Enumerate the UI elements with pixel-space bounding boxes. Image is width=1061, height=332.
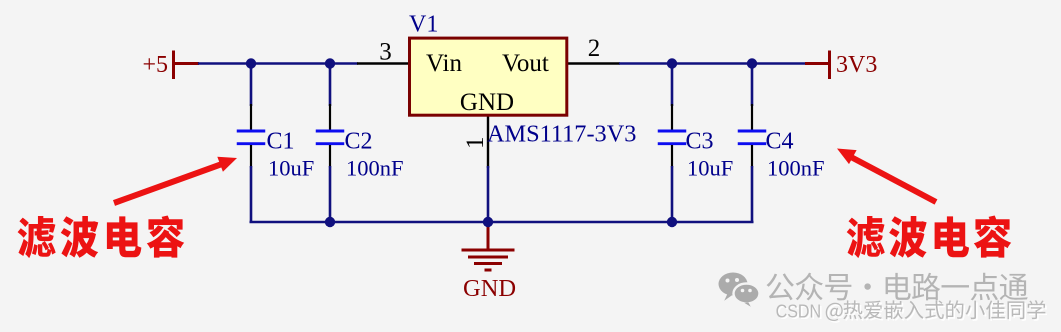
- svg-text:C2: C2: [345, 129, 373, 155]
- svg-text:10uF: 10uF: [687, 156, 733, 181]
- svg-text:CSDN: CSDN: [776, 301, 822, 322]
- svg-text:2: 2: [588, 35, 601, 62]
- svg-text:100nF: 100nF: [767, 156, 825, 181]
- svg-text:Vout: Vout: [502, 50, 549, 77]
- svg-text:V1: V1: [409, 12, 438, 38]
- svg-text:C4: C4: [766, 129, 794, 155]
- svg-text:Vin: Vin: [426, 50, 462, 77]
- svg-text:3: 3: [379, 39, 392, 66]
- svg-text:10uF: 10uF: [268, 156, 314, 181]
- svg-text:3V3: 3V3: [836, 52, 877, 78]
- svg-text:GND: GND: [460, 89, 514, 116]
- svg-text:AMS1117-3V3: AMS1117-3V3: [487, 121, 636, 148]
- svg-text:GND: GND: [463, 275, 516, 302]
- svg-text:1: 1: [462, 137, 489, 150]
- svg-text:100nF: 100nF: [346, 156, 404, 181]
- svg-text:C1: C1: [267, 129, 295, 155]
- svg-text:C3: C3: [686, 129, 714, 155]
- svg-text:+5: +5: [142, 52, 168, 78]
